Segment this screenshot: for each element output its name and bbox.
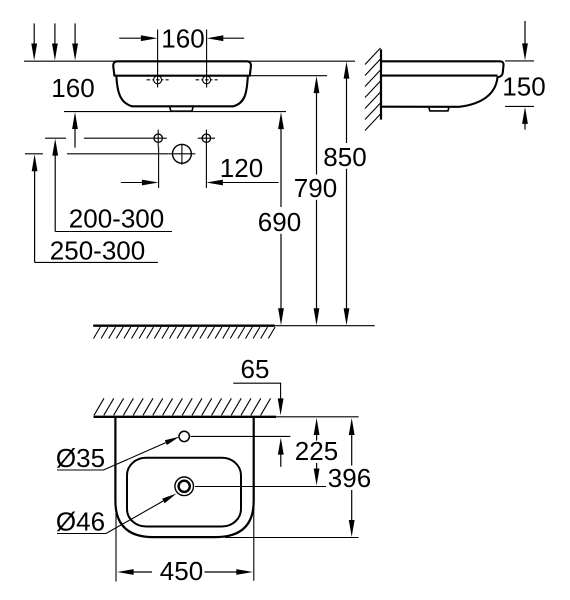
dim 225 (295, 418, 338, 486)
bottom extension line (225, 537, 359, 539)
dim 160 top extension line left (157, 30, 159, 73)
drain extension line (195, 486, 326, 488)
drain hole (169, 144, 196, 165)
svg-text:690: 690 (258, 207, 301, 237)
drain outer circle (175, 477, 194, 496)
svg-text:200-300: 200-300 (69, 204, 164, 234)
dim 150 (502, 21, 545, 130)
supply hole left (150, 130, 167, 147)
svg-text:120: 120 (220, 153, 263, 183)
mounting arrow 2 (52, 23, 58, 60)
top reference line (24, 60, 355, 62)
svg-text:250-300: 250-300 (50, 236, 145, 266)
leader dia 46 (56, 494, 177, 537)
rim level extension line (251, 75, 327, 77)
mounting arrow 3 (72, 23, 78, 60)
dim 160 top (119, 24, 244, 54)
faucet hole right (196, 71, 218, 88)
drain inner ring (179, 481, 190, 492)
dim 850 (323, 62, 366, 326)
svg-text:396: 396 (328, 463, 371, 493)
dim 160 top extension line right (206, 30, 208, 73)
svg-text:Ø35: Ø35 (56, 443, 105, 473)
svg-text:160: 160 (161, 24, 204, 54)
side view wall line (380, 49, 382, 119)
left extension line (115, 508, 117, 582)
tap hole (179, 431, 189, 441)
dim 790 (294, 76, 337, 325)
dim 450 (117, 556, 253, 586)
lower reference line (64, 111, 286, 113)
extension line drain level (67, 153, 168, 155)
top view wall line extension (276, 416, 359, 418)
svg-text:Ø46: Ø46 (56, 507, 105, 537)
supply hole right (198, 130, 215, 147)
svg-text:65: 65 (241, 354, 270, 384)
arrow to lower reference line (72, 112, 78, 148)
basin front bowl (116, 77, 247, 107)
faucet hole left (147, 71, 169, 88)
svg-text:150: 150 (502, 72, 545, 102)
svg-text:850: 850 (323, 142, 366, 172)
tap hole extension line (191, 435, 291, 437)
basin front rim line (114, 75, 251, 77)
basin side drain bump (429, 108, 449, 111)
side view wall hatching (365, 48, 381, 131)
svg-text:225: 225 (295, 436, 338, 466)
floor line (93, 325, 275, 327)
mounting arrow 1 (31, 23, 37, 60)
top view wall line (94, 416, 277, 418)
dim 200-300 (45, 138, 172, 233)
floor hatching (94, 327, 276, 339)
svg-text:790: 790 (294, 173, 337, 203)
basin top view outer outline (115, 417, 253, 537)
basin top view inner bowl (127, 458, 241, 527)
basin front view outline (113, 61, 251, 75)
svg-text:160: 160 (51, 73, 94, 103)
dim 250-300 (25, 154, 158, 266)
right extension line (253, 508, 255, 581)
basin side rim line (381, 75, 498, 77)
svg-text:450: 450 (160, 556, 203, 586)
dim 65 (233, 354, 284, 467)
top view wall hatching (94, 398, 271, 415)
dim 690 (258, 112, 301, 325)
leader dia 35 (56, 437, 180, 473)
dim 396 (328, 418, 371, 537)
basin side profile (381, 61, 504, 107)
extension line supply level (84, 137, 150, 139)
basin front drain bump (170, 107, 193, 111)
dim 120 (121, 147, 279, 188)
